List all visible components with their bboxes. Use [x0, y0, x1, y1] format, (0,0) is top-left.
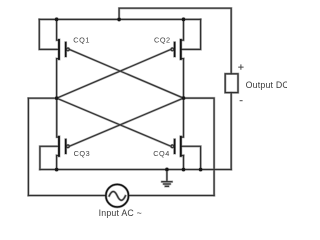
svg-text:CQ4: CQ4 — [153, 149, 170, 158]
svg-text:CQ3: CQ3 — [74, 149, 91, 158]
svg-text:CQ1: CQ1 — [73, 35, 90, 44]
svg-text:CQ2: CQ2 — [154, 35, 171, 44]
svg-text:Output DC -: Output DC - — [246, 80, 287, 90]
svg-text:Input AC ~: Input AC ~ — [99, 208, 142, 218]
